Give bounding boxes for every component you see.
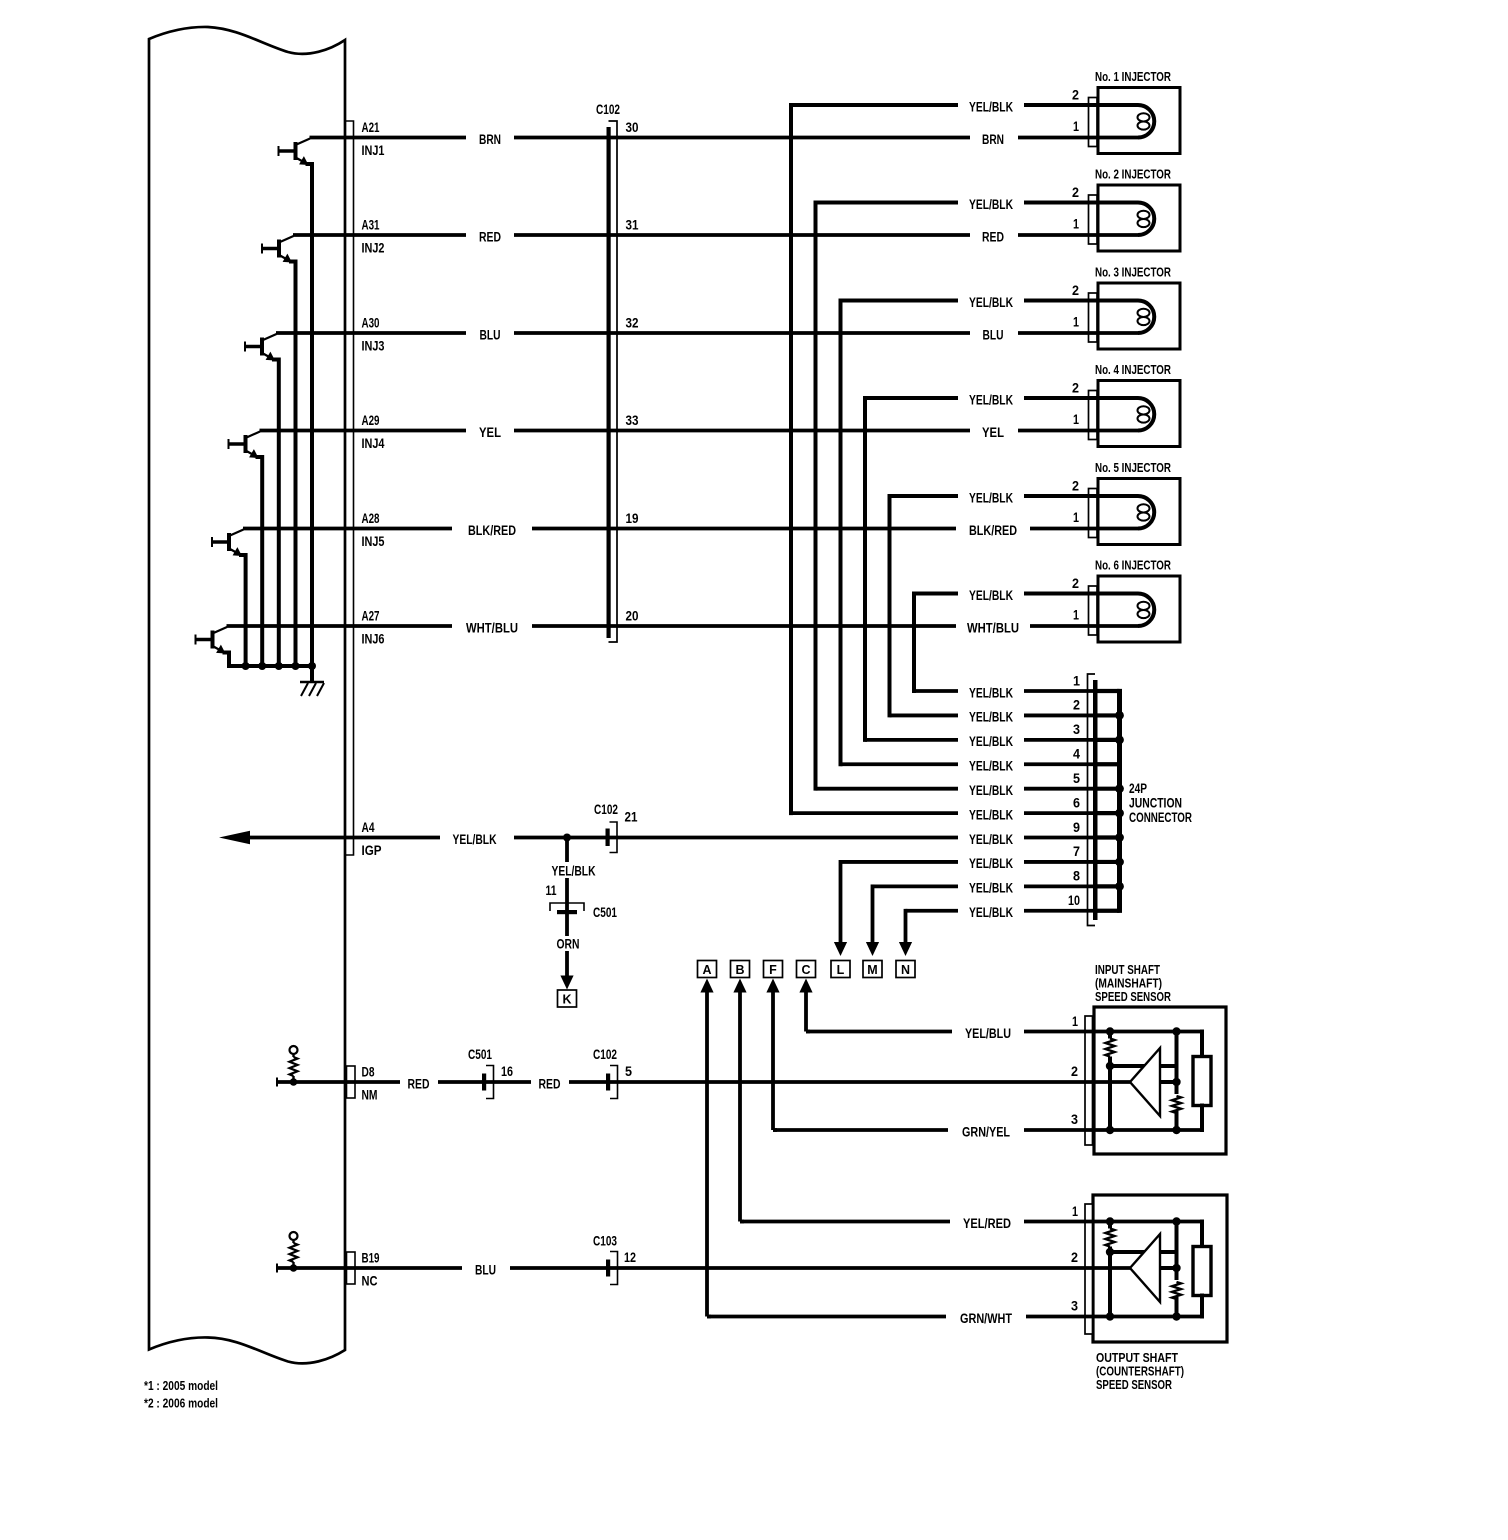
transistor Q4 (injector driver INJ4) [229, 432, 263, 667]
wire YEL/BLK to No.6 injector pin 2 [914, 592, 1138, 596]
svg-text:1: 1 [1073, 412, 1079, 427]
svg-text:1: 1 [1072, 1014, 1078, 1029]
svg-text:3: 3 [1073, 722, 1080, 737]
svg-text:B: B [735, 963, 744, 977]
injector 2 coil [1138, 203, 1154, 236]
wire junction row 10 to N [906, 909, 1096, 913]
No. 5 injector connector tab [1089, 489, 1098, 538]
svg-text:YEL/BLK: YEL/BLK [969, 685, 1013, 700]
No. 4 injector connector tab [1089, 391, 1098, 440]
node C (connector reference) [797, 961, 816, 978]
svg-text:RED: RED [982, 229, 1004, 244]
svg-text:A28: A28 [362, 511, 380, 526]
svg-text:10: 10 [1068, 893, 1080, 908]
junction node on IGP row [563, 834, 571, 842]
svg-text:RED: RED [539, 1076, 561, 1091]
wire junction row 3 horizontal [865, 738, 1095, 742]
junction on ground bus x=245.6 [242, 662, 250, 670]
junction on ground bus x=262.2 [258, 662, 266, 670]
svg-text:*1 : 2005 model: *1 : 2005 model [144, 1378, 218, 1393]
svg-text:5: 5 [1073, 771, 1080, 786]
svg-text:SPEED SENSOR: SPEED SENSOR [1095, 989, 1171, 1004]
svg-text:INJ2: INJ2 [362, 241, 385, 256]
No. 2 injector box [1098, 185, 1180, 251]
svg-text:K: K [562, 993, 571, 1007]
junction node row 9 [1115, 833, 1124, 842]
svg-text:D8: D8 [362, 1064, 375, 1079]
svg-text:RED: RED [408, 1076, 430, 1091]
svg-text:YEL/BLK: YEL/BLK [969, 807, 1013, 822]
svg-text:1: 1 [1073, 216, 1079, 231]
No. 1 injector box [1098, 88, 1180, 154]
svg-text:24P: 24P [1129, 781, 1147, 796]
No. 3 injector connector tab [1089, 293, 1098, 342]
svg-text:IGP: IGP [362, 843, 382, 858]
svg-text:YEL/RED: YEL/RED [963, 1216, 1011, 1231]
svg-text:ORN: ORN [557, 937, 580, 952]
svg-text:C103: C103 [593, 1234, 617, 1249]
wire YEL/BLK vertical bus 6 [912, 592, 916, 694]
junction on ground bus x=278.8 [275, 662, 283, 670]
wire YEL/BLU input sensor pin1 [806, 1030, 1202, 1034]
svg-text:C102: C102 [593, 1047, 617, 1062]
svg-text:No. 5 INJECTOR: No. 5 INJECTOR [1095, 460, 1171, 475]
svg-text:RED: RED [479, 229, 501, 244]
wire YEL/BLK to No.5 injector pin 2 [890, 494, 1139, 498]
label BLU on NC row [462, 1260, 510, 1276]
wire junction row 5 horizontal [816, 787, 1096, 791]
node B (connector reference) [731, 961, 750, 978]
svg-text:YEL/BLK: YEL/BLK [969, 295, 1013, 310]
svg-text:3: 3 [1071, 1112, 1078, 1127]
wire from C connector down to row y=1031.5 [804, 992, 808, 1032]
svg-text:20: 20 [626, 608, 639, 623]
svg-text:2: 2 [1072, 380, 1079, 395]
svg-text:1: 1 [1073, 314, 1079, 329]
label YEL/BLK on IGP row [440, 830, 514, 846]
svg-text:YEL/BLK: YEL/BLK [969, 856, 1013, 871]
wire YEL/BLK drop to C501 [565, 838, 569, 913]
svg-text:No. 1 INJECTOR: No. 1 INJECTOR [1095, 69, 1171, 84]
junction node row 2 [1115, 711, 1124, 720]
wire junction row 4 horizontal [841, 762, 1096, 766]
svg-text:YEL/BLK: YEL/BLK [969, 490, 1013, 505]
svg-text:INJ6: INJ6 [362, 632, 385, 647]
svg-text:C102: C102 [594, 802, 618, 817]
svg-text:12: 12 [624, 1250, 636, 1265]
labels: injector colour rows left [466, 130, 514, 146]
label YEL/BLK on drop wire [541, 862, 607, 878]
junction node row 3 [1115, 735, 1124, 744]
svg-text:4: 4 [1073, 747, 1080, 762]
svg-text:A21: A21 [362, 120, 380, 135]
svg-text:A: A [702, 963, 711, 977]
node N (connector reference) [896, 961, 915, 978]
svg-text:1: 1 [1073, 673, 1080, 688]
svg-text:2: 2 [1072, 478, 1079, 493]
wire YEL/BLK to No.2 injector pin 2 [816, 201, 1139, 205]
svg-text:YEL/BLU: YEL/BLU [965, 1026, 1011, 1041]
wire junction row 8 to M [873, 884, 1096, 888]
wire from B connector down to row y=1221.5 [738, 992, 742, 1222]
svg-text:3: 3 [1071, 1299, 1078, 1314]
svg-text:JUNCTION: JUNCTION [1129, 796, 1182, 811]
svg-text:YEL: YEL [982, 425, 1004, 440]
input shaft speed sensor box [1094, 1007, 1226, 1154]
No. 1 injector connector tab [1089, 98, 1098, 147]
junction node row 5 [1115, 784, 1124, 793]
svg-text:YEL/BLK: YEL/BLK [969, 734, 1013, 749]
svg-text:GRN/YEL: GRN/YEL [962, 1124, 1010, 1139]
wire BRN : pin A-row to No.1 injector pin 1 [310, 136, 1139, 140]
output shaft speed sensor box [1093, 1195, 1227, 1342]
svg-text:YEL/BLK: YEL/BLK [969, 832, 1013, 847]
wire from A connector down to row y=1316.5 [705, 992, 709, 1317]
svg-text:BLU: BLU [983, 327, 1004, 342]
svg-text:BLK/RED: BLK/RED [969, 523, 1017, 538]
wire YEL/BLK to No.4 injector pin 2 [865, 396, 1138, 400]
labels RED RED on NM row [400, 1074, 438, 1090]
svg-text:5: 5 [625, 1064, 632, 1079]
svg-text:A27: A27 [362, 608, 380, 623]
labels: junction rows YEL/BLK [958, 683, 1024, 699]
svg-text:INJ3: INJ3 [362, 339, 385, 354]
svg-text:F: F [769, 963, 777, 977]
svg-text:2: 2 [1072, 185, 1079, 200]
wire YEL/BLK vertical bus 3 [839, 299, 843, 767]
svg-text:B19: B19 [362, 1250, 380, 1265]
svg-text:16: 16 [501, 1064, 513, 1079]
svg-text:9: 9 [1073, 820, 1080, 835]
svg-text:L: L [837, 963, 845, 977]
ECM connector A bracket [346, 121, 354, 855]
input sensor connector tab [1085, 1016, 1093, 1145]
wire YEL/BLK to No.1 injector pin 2 [791, 103, 1138, 107]
svg-text:INJ5: INJ5 [362, 534, 385, 549]
svg-text:6: 6 [1073, 795, 1080, 810]
wire YEL : pin A-row to No.4 injector pin 1 [260, 429, 1139, 433]
wire BLU / NC row to output sensor pin2 [277, 1266, 1130, 1270]
svg-text:19: 19 [626, 511, 639, 526]
wire BLU : pin A-row to No.3 injector pin 1 [276, 331, 1138, 335]
svg-text:YEL/BLK: YEL/BLK [969, 783, 1013, 798]
svg-text:8: 8 [1073, 869, 1080, 884]
ground symbol [300, 666, 324, 696]
No. 2 injector connector tab [1089, 195, 1098, 244]
wire junction row 2 horizontal [890, 714, 1096, 718]
wire junction row 1 horizontal [914, 689, 1095, 693]
injector 4 coil [1138, 398, 1154, 431]
wire YEL/BLK vertical bus 5 [888, 494, 892, 717]
svg-text:YEL/BLK: YEL/BLK [969, 588, 1013, 603]
svg-text:C: C [801, 963, 810, 977]
svg-text:C501: C501 [593, 905, 617, 920]
svg-text:2: 2 [1073, 698, 1080, 713]
svg-text:YEL/BLK: YEL/BLK [969, 99, 1013, 114]
svg-text:NM: NM [362, 1088, 378, 1103]
svg-text:33: 33 [626, 413, 639, 428]
wire BLK/RED : pin A-row to No.5 injector pin 1 [243, 527, 1138, 531]
svg-text:A31: A31 [362, 217, 380, 232]
wire GRN/WHT output sensor pin3 [707, 1315, 1202, 1319]
injector 3 coil [1138, 301, 1154, 334]
labels: YEL/BLK injector pin2 rows [958, 97, 1024, 113]
No. 3 injector box [1098, 283, 1180, 349]
arrow (to fuse box) on IGP wire [219, 831, 250, 845]
svg-text:YEL/BLK: YEL/BLK [969, 710, 1013, 725]
transistor Q2 (injector driver INJ2) [262, 236, 296, 666]
wire RED / NM row to input sensor pin2 [277, 1080, 1130, 1084]
wire ORN to K [565, 912, 569, 978]
svg-text:NC: NC [362, 1274, 378, 1289]
svg-text:A4: A4 [362, 820, 375, 835]
svg-text:YEL/BLK: YEL/BLK [969, 905, 1013, 920]
svg-text:BRN: BRN [982, 132, 1004, 147]
No. 4 injector box [1098, 381, 1180, 447]
wire junction row 6 horizontal [791, 811, 1095, 815]
svg-text:2: 2 [1072, 576, 1079, 591]
junction on ground bus x=312 [308, 662, 316, 670]
wire YEL/BLK vertical bus 4 [863, 396, 867, 742]
transistor Q6 (injector driver INJ6) [196, 627, 230, 666]
No. 6 injector box [1098, 576, 1180, 642]
svg-text:YEL/BLK: YEL/BLK [969, 759, 1013, 774]
svg-text:21: 21 [625, 810, 638, 825]
injector 1 coil [1138, 105, 1154, 138]
svg-text:No. 4 INJECTOR: No. 4 INJECTOR [1095, 362, 1171, 377]
ECM/PCM body (torn-edge box) [149, 27, 345, 1363]
svg-text:M: M [867, 963, 877, 977]
ground bus [227, 664, 314, 668]
arrow into K [560, 976, 573, 990]
svg-text:*2 : 2006 model: *2 : 2006 model [144, 1396, 218, 1411]
svg-text:BRN: BRN [479, 132, 501, 147]
injector 5 coil [1138, 496, 1154, 529]
svg-text:YEL: YEL [479, 425, 501, 440]
svg-text:1: 1 [1073, 119, 1079, 134]
junction node row 8 [1115, 882, 1124, 891]
wire YEL/BLK to No.3 injector pin 2 [841, 299, 1139, 303]
labels: injector colour rows right [970, 130, 1018, 146]
svg-text:31: 31 [626, 217, 639, 232]
node L (connector reference) [831, 961, 850, 978]
transistor Q3 (injector driver INJ3) [245, 334, 279, 666]
svg-text:WHT/BLU: WHT/BLU [466, 620, 518, 635]
pin tab B19/NC [347, 1252, 356, 1284]
wire WHT/BLU : pin A-row to No.6 injector pin 1 [227, 624, 1139, 628]
svg-text:2: 2 [1071, 1064, 1078, 1079]
wire from F connector down to row y=1130 [771, 992, 775, 1130]
junction node row 6 [1115, 809, 1124, 818]
wire RED : pin A-row to No.2 injector pin 1 [293, 233, 1138, 237]
svg-text:11: 11 [546, 883, 557, 898]
svg-text:INJ1: INJ1 [362, 143, 385, 158]
junction on ground bus x=295.5 [292, 662, 300, 670]
svg-text:CONNECTOR: CONNECTOR [1129, 810, 1192, 825]
node M (connector reference) [863, 961, 882, 978]
svg-text:A30: A30 [362, 315, 380, 330]
transistor Q5 (injector driver INJ5) [212, 530, 246, 667]
svg-text:1: 1 [1073, 607, 1079, 622]
wire GRN/YEL input sensor pin3 [773, 1128, 1202, 1132]
svg-text:BLU: BLU [480, 327, 501, 342]
svg-text:No. 3 INJECTOR: No. 3 INJECTOR [1095, 265, 1171, 280]
svg-text:30: 30 [626, 120, 639, 135]
wire YEL/BLK vertical bus 2 [814, 201, 818, 791]
No. 5 injector box [1098, 479, 1180, 545]
svg-text:2: 2 [1072, 283, 1079, 298]
svg-text:No. 2 INJECTOR: No. 2 INJECTOR [1095, 167, 1171, 182]
svg-text:C102: C102 [596, 102, 620, 117]
transistor Q1 (injector driver INJ1) [279, 139, 313, 667]
svg-text:2: 2 [1072, 87, 1079, 102]
svg-text:7: 7 [1073, 844, 1080, 859]
pin tab D8/NM [347, 1066, 356, 1098]
svg-text:YEL/BLK: YEL/BLK [969, 881, 1013, 896]
svg-text:C501: C501 [468, 1047, 492, 1062]
node F (connector reference) [764, 961, 783, 978]
labels sensor wires [952, 1024, 1024, 1039]
svg-text:YEL/BLK: YEL/BLK [552, 864, 596, 879]
wire YEL/RED output sensor pin1 [740, 1220, 1202, 1224]
svg-text:1: 1 [1072, 1204, 1078, 1219]
op-amp U1 input shaft speed sensor internal circuit [1104, 1027, 1211, 1134]
node A (connector reference) [698, 961, 717, 978]
svg-text:N: N [901, 963, 910, 977]
svg-text:BLK/RED: BLK/RED [468, 523, 516, 538]
svg-text:GRN/WHT: GRN/WHT [960, 1311, 1013, 1326]
svg-text:2: 2 [1071, 1250, 1078, 1265]
svg-text:YEL/BLK: YEL/BLK [453, 832, 497, 847]
svg-text:WHT/BLU: WHT/BLU [967, 620, 1019, 635]
node K (connector reference) [558, 990, 577, 1007]
pull-up resistor and supply at NC pin [290, 1232, 298, 1272]
svg-text:1: 1 [1073, 510, 1079, 525]
op-amp U2 output shaft speed sensor internal circuit [1104, 1217, 1211, 1320]
svg-text:No. 6 INJECTOR: No. 6 INJECTOR [1095, 558, 1171, 573]
svg-text:YEL/BLK: YEL/BLK [969, 197, 1013, 212]
output sensor connector tab [1085, 1204, 1093, 1334]
svg-text:A29: A29 [362, 413, 380, 428]
wire A4 IGP YEL/BLK row [244, 836, 1095, 840]
wire YEL/BLK vertical bus 1 [789, 103, 793, 815]
junction node row 7 [1115, 858, 1124, 867]
wire junction row 7 to L [841, 860, 1096, 864]
24P junction connector [1088, 674, 1120, 926]
svg-text:SPEED SENSOR: SPEED SENSOR [1096, 1377, 1172, 1392]
No. 6 injector connector tab [1089, 586, 1098, 635]
label ORN [553, 936, 582, 951]
injector 6 coil [1138, 594, 1154, 627]
pull-up resistor and supply at NM pin [290, 1046, 298, 1086]
svg-text:INJ4: INJ4 [362, 436, 385, 451]
svg-text:YEL/BLK: YEL/BLK [969, 392, 1013, 407]
svg-text:BLU: BLU [475, 1262, 496, 1277]
svg-text:32: 32 [626, 315, 639, 330]
